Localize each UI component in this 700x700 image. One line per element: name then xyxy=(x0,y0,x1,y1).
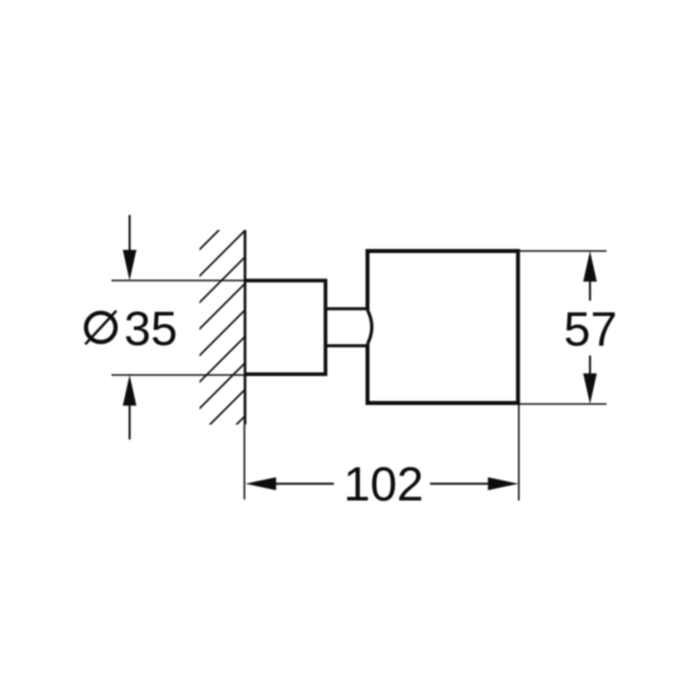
ball joint arc xyxy=(368,310,372,344)
wall xyxy=(244,230,247,425)
dim 102 extension line left xyxy=(243,425,245,500)
dim Ø35 extension line bottom xyxy=(112,374,246,376)
dim 102 arrow right xyxy=(488,477,519,490)
dim Ø35 extension line top xyxy=(112,280,246,282)
dim 57 arrow down xyxy=(583,373,597,404)
dim 57 arrow up xyxy=(583,251,597,282)
dim Ø35 line lower xyxy=(129,403,131,440)
holder base cylinder xyxy=(245,281,326,375)
svg-text:35: 35 xyxy=(124,303,177,356)
neck upper line xyxy=(326,307,368,310)
dim 102 line right segment xyxy=(430,483,490,485)
dim 102 arrow left xyxy=(246,477,277,490)
dim Ø35 arrow up xyxy=(123,375,137,406)
dim 57 line lower xyxy=(589,356,591,378)
dim 102 line left segment xyxy=(274,483,334,485)
svg-text:57: 57 xyxy=(564,303,617,356)
dim Ø35 line upper xyxy=(129,215,131,252)
dim 57 extension line bottom xyxy=(518,403,607,405)
cup body xyxy=(368,251,519,403)
label diameter symbol circle xyxy=(86,313,116,342)
dim 102 extension line right xyxy=(518,403,520,501)
neck lower line xyxy=(326,344,368,347)
wall hatching xyxy=(184,182,269,474)
svg-text:102: 102 xyxy=(344,458,424,511)
label diameter symbol slash xyxy=(85,311,116,345)
dim 57 extension line top xyxy=(518,250,607,252)
dim 57 line upper xyxy=(589,278,591,301)
dim Ø35 arrow down xyxy=(123,250,137,281)
